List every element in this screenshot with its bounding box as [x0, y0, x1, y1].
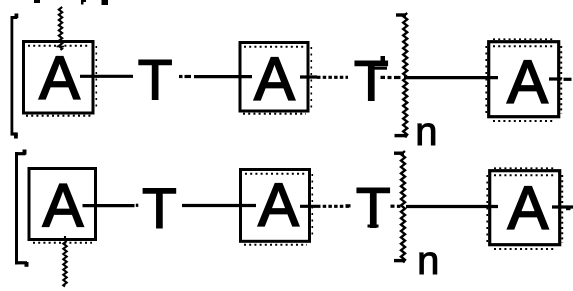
bond tip inside box A1 row2 [64, 236, 66, 241]
wire bracket to box A3 row2 [346, 204, 499, 208]
svg-text:T: T [356, 176, 391, 240]
wire box A1 to T row2 [83, 204, 139, 208]
wire T1 to box A2 row2 [182, 204, 256, 207]
wire T1 to box A2 row1 [179, 75, 252, 78]
bracket left row2 [15, 150, 29, 267]
svg-text:A: A [39, 44, 80, 112]
svg-text:n: n [417, 239, 439, 283]
bracket right row2 [394, 151, 405, 263]
bracket left row1 [11, 14, 19, 139]
svg-text:A: A [254, 45, 295, 113]
box A2 row2 [241, 170, 313, 245]
wire box A2 to T2 row1 [300, 75, 348, 79]
wire box A1 to T row1 [80, 75, 133, 78]
svg-text:A: A [507, 48, 548, 116]
tick at tip of vertical bond row1 [57, 46, 65, 48]
svg-text:A: A [508, 174, 549, 242]
tick above T2 bar right row1 [381, 56, 386, 61]
dashed vertical bond into box A1 row1 [59, 7, 62, 50]
svg-text:T: T [142, 177, 177, 241]
dashed vertical bond below box A1 row2 [63, 241, 66, 287]
foot of T2 stem row2 [368, 225, 379, 228]
blob under stub row2 [566, 208, 571, 210]
top cut-off mark 2 [81, 0, 86, 5]
wire box A2 to T2 row2 [300, 205, 349, 208]
box A1 row2 [29, 169, 96, 243]
svg-text:n: n [415, 110, 437, 154]
box A3 row2 [487, 168, 562, 249]
box A3 row1 [486, 39, 561, 121]
bracket right row1 [395, 13, 408, 138]
wire bracket to box A3 row1 [381, 76, 499, 79]
svg-text:A: A [43, 172, 84, 240]
box A1 row1 [24, 42, 97, 116]
serif blob under T2 bar right row1 [374, 67, 387, 70]
box A2 row1 [240, 43, 311, 114]
wire stub right row2 [552, 205, 573, 208]
top cut-off mark 3 [102, 0, 109, 5]
svg-text:A: A [258, 171, 299, 239]
svg-text:T: T [138, 48, 173, 112]
wire stub right row1 [549, 77, 572, 81]
top cut-off mark 1 [34, 0, 40, 3]
